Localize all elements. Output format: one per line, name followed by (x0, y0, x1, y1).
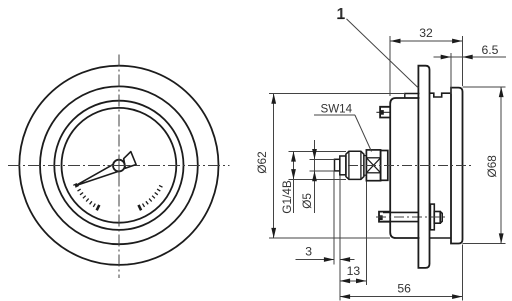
bottom screw head (379, 212, 391, 222)
stud end nut (434, 212, 440, 224)
thread block G1/4 (346, 151, 364, 179)
dim 56 (461, 245, 463, 301)
arrowheads (271, 39, 503, 299)
centerline segments over hub (108, 164, 131, 166)
mounting bracket plate (418, 66, 429, 268)
boss on case top (405, 94, 420, 99)
screw centerline (376, 216, 446, 218)
dim 6.5 lines (434, 56, 507, 58)
ring behind hex (381, 151, 388, 181)
top clip screw head (380, 107, 390, 118)
label 1 leader (347, 19, 419, 88)
pointer tail counterweight (124, 152, 136, 169)
window ring circle (54, 101, 183, 230)
dim O5 (310, 158, 335, 160)
dial circle (62, 108, 177, 223)
O62 arrows (271, 94, 276, 104)
56 arrows (340, 294, 350, 299)
svg-text:Ø5: Ø5 (300, 193, 314, 209)
back flange plate (451, 88, 463, 244)
dim 13 (365, 182, 367, 286)
O68 arrows (499, 87, 504, 97)
hex nut SW14 (366, 150, 380, 181)
dial major ticks (97, 205, 141, 210)
dim 3 (333, 172, 335, 265)
pointer needle (76, 162, 121, 185)
centerline vertical (front view) (118, 54, 120, 278)
svg-text:Ø68: Ø68 (485, 155, 499, 178)
bezel ring circle (40, 86, 198, 244)
6.5 arrows (441, 55, 451, 60)
svg-text:Ø62: Ø62 (255, 151, 269, 173)
svg-text:1: 1 (337, 6, 346, 23)
svg-text:13: 13 (347, 264, 361, 278)
dim 32 extension lines (389, 36, 391, 96)
svg-text:SW14: SW14 (321, 102, 353, 115)
svg-text:32: 32 (419, 26, 433, 40)
case body (front section) (390, 98, 419, 238)
bottom screw pin body (383, 211, 418, 213)
dim G1/4B (289, 150, 346, 152)
stem centerline (348, 164, 472, 166)
dial minor ticks (73, 184, 162, 207)
32 arrows (390, 39, 400, 44)
dim 32 line (390, 40, 462, 42)
case rear section bottom edge (430, 237, 452, 239)
pointer hub (113, 160, 125, 172)
13 arrows (340, 279, 350, 284)
washer behind bracket (430, 204, 434, 230)
centerline horizontal (front view) (8, 164, 230, 166)
svg-text:56: 56 (397, 282, 411, 296)
neck (364, 156, 367, 176)
dim O68 (463, 86, 506, 88)
svg-text:3: 3 (305, 245, 312, 259)
gauge outer case circle (19, 66, 218, 265)
connection tip (335, 159, 340, 171)
svg-text:G1/4B: G1/4B (280, 180, 294, 214)
svg-text:6.5: 6.5 (482, 43, 499, 57)
G1/4B arrows (291, 151, 296, 161)
SW14 leader diagonal (355, 115, 372, 152)
SW14 leader underline (314, 114, 355, 116)
connection collar (340, 156, 346, 175)
3 arrows (324, 257, 334, 262)
case rear section top edge with groove (430, 93, 452, 97)
dim O62 (269, 93, 405, 95)
O5 arrows (312, 149, 317, 159)
